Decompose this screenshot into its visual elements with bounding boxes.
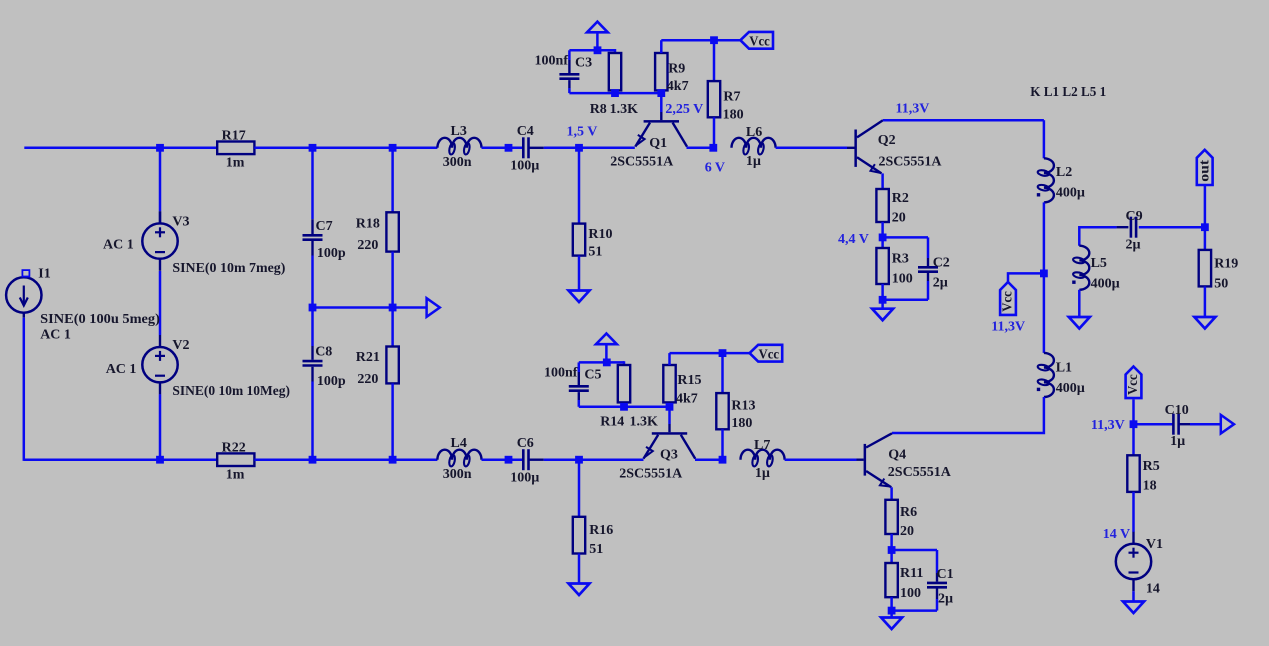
wire L2 top lead [1043,120,1046,158]
svg-text:C6: C6 [517,436,534,451]
resistor R7 [708,81,720,117]
svg-text:L1: L1 [1056,361,1072,376]
wire junction to Vcc flag bottom [723,352,750,355]
svg-text:2,25 V: 2,25 V [665,102,703,117]
voltage source V3 [142,211,177,270]
svg-text:4k7: 4k7 [667,79,689,94]
svg-text:14 V: 14 V [1103,527,1130,542]
node junction at R10 column [575,144,583,152]
wire R3 bottom lead [881,284,884,309]
node junction bottom rail at C6 [505,456,513,464]
svg-text:400µ: 400µ [1056,186,1085,201]
wire corner down to R8 [614,49,617,53]
node junction above C5 [603,359,611,367]
node junction bottom rail at V2 column [156,456,164,464]
wire C7 column upper lead [311,148,314,220]
voltage source V2 [142,335,177,394]
node junction R11 bottom [888,607,896,615]
ground below R16 [569,584,590,596]
svg-text:C5: C5 [584,368,601,383]
svg-text:L3: L3 [451,124,467,139]
svg-text:R13: R13 [731,399,755,414]
wire R11 bottom lead [890,597,893,617]
node junction at R9 bottom [657,89,665,97]
svg-text:400µ: 400µ [1056,381,1085,396]
capacitor C2 [918,267,938,271]
inductor L5 [1079,246,1089,290]
resistor R3 [876,248,888,284]
wire R13 bottom lead [721,429,724,459]
svg-text:Q4: Q4 [888,447,906,462]
svg-text:1m: 1m [226,467,245,482]
wire C9 to out node [1139,226,1205,229]
ground below R19 [1194,317,1215,329]
svg-text:R9: R9 [668,62,685,77]
transistor Q1 base bar [644,120,679,123]
resistor R21 [386,347,398,384]
capacitor C1 [927,583,947,587]
svg-text:100: 100 [892,272,913,287]
ground below L5 [1069,317,1090,329]
resistor R11 [885,563,897,597]
resistor R6 [885,500,897,534]
svg-text:SINE(0 10m 7meg): SINE(0 10m 7meg) [172,261,285,276]
wire R21 to bottom rail [391,383,394,459]
svg-text:C2: C2 [933,255,950,270]
svg-text:2SC5551A: 2SC5551A [619,466,683,481]
resistor R5 [1127,455,1139,492]
node junction at R13 top [719,349,727,357]
svg-text:4,4 V: 4,4 V [838,232,869,247]
svg-text:4k7: 4k7 [676,391,698,406]
svg-text:2SC5551A: 2SC5551A [610,154,674,169]
wire R13 top lead [721,353,724,393]
wire R10 bottom lead [578,256,581,291]
output port arrow middle rail [427,298,440,317]
wire C7 to middle node [311,241,313,256]
svg-text:I1: I1 [38,267,50,282]
wire Q1 collector to 6V node [687,147,714,150]
svg-text:1m: 1m [226,156,245,171]
resistor R16 [573,517,585,554]
svg-text:51: 51 [589,542,603,557]
svg-text:out: out [1197,159,1212,181]
wire junction to Vcc flag [714,39,740,42]
transistor Q2 emitter [857,157,882,173]
capacitor C7 [303,235,323,239]
wire C8 to bottom rail [311,367,313,382]
net flag Vcc supply [1126,367,1142,399]
node junction middle rail at C8 column [309,304,317,312]
node junction R2/R3 [879,234,887,242]
svg-text:AC 1: AC 1 [40,327,71,342]
svg-text:R17: R17 [222,129,246,144]
resistor R2 [876,189,888,222]
wire bottom rail after R22 [254,458,437,461]
node junction bottom rail at C8 column [309,456,317,464]
node junction at R15 bottom [666,403,674,411]
svg-text:220: 220 [357,372,378,387]
wire V1 bottom lead [1132,591,1135,601]
svg-text:1.3K: 1.3K [610,102,639,117]
svg-text:R18: R18 [356,216,380,231]
wire C6 to Q3 emitter node [544,458,644,461]
node junction top rail at V3 column [156,144,164,152]
wire R15 to Vcc junction bottom [670,352,723,355]
ground below R11 [881,618,902,630]
capacitor C6 [523,449,528,470]
wire C2 bottom branch [927,273,929,281]
svg-text:51: 51 [588,244,602,259]
wire R15 top lead [668,353,671,365]
svg-text:K L1 L2 L5 1: K L1 L2 L5 1 [1030,85,1106,100]
wire C10 to output port [1190,423,1221,426]
current source I1 [6,277,41,317]
svg-text:R16: R16 [589,523,613,538]
wire R19 bottom lead [1204,286,1207,317]
wire net flag stem [596,32,599,50]
ground below R10 [569,291,590,303]
wire V2 to bottom rail [159,394,162,459]
node junction top rail at C7 column [309,144,317,152]
svg-text:11,3V: 11,3V [896,101,930,116]
transistor Q2 collector [857,120,883,137]
svg-text:SINE(0 100u 5meg): SINE(0 100u 5meg) [40,312,160,327]
node junction above C3 [594,46,602,54]
wire Q3 base vertical [668,407,671,424]
wire Q3 collector to R13 node [695,458,723,461]
svg-text:C3: C3 [575,56,592,71]
wire between V3 and V2 [159,271,162,335]
svg-text:R11: R11 [900,566,923,581]
voltage source V1 [1116,532,1151,591]
svg-text:R19: R19 [1214,257,1238,272]
svg-text:1,5 V: 1,5 V [567,124,598,139]
output port arrow right [1221,415,1234,434]
wire R21 top lead [391,308,394,347]
capacitor C10 [1173,414,1178,435]
capacitor C3 [559,74,579,78]
inductor L7 [741,450,785,460]
node junction out node [1201,223,1209,231]
svg-text:R2: R2 [892,191,909,206]
wire V3 column upper [159,148,162,212]
inductor L2 [1044,158,1054,202]
node junction at R7 top [710,36,718,44]
wire R16 bottom lead [578,554,581,584]
svg-text:R15: R15 [677,373,701,388]
transistor Q2 base bar [854,130,857,167]
svg-text:Q1: Q1 [649,136,667,151]
svg-text:L7: L7 [754,438,770,453]
wire C5 left branch lower [578,392,580,400]
transistor Q3 base bar [652,432,687,435]
svg-text:1µ: 1µ [746,154,761,169]
transistor Q1 emitter [635,123,650,147]
wire bottom rail left segment [24,458,217,461]
svg-text:1µ: 1µ [1170,434,1185,449]
node junction Q3 collector node [719,456,727,464]
resistor R13 [716,393,728,429]
node junction R3 bottom [879,296,887,304]
wire corner down to R14 [623,361,626,365]
svg-text:C9: C9 [1126,209,1143,224]
svg-text:11,3V: 11,3V [991,320,1025,335]
svg-text:V3: V3 [172,214,189,229]
ground below R3 [872,309,893,321]
capacitor C4 [523,137,528,158]
svg-text:300n: 300n [443,155,472,170]
wire supply node to C10 [1134,423,1174,426]
wire C1 bottom branch [936,588,938,599]
net flag Vcc top [740,32,773,49]
svg-text:R3: R3 [892,252,909,267]
capacitor C5 [569,386,589,390]
svg-text:Vcc: Vcc [759,347,780,362]
svg-text:SINE(0 10m 10Meg): SINE(0 10m 10Meg) [172,384,290,399]
svg-text:180: 180 [731,416,752,431]
unconnected pin marker at I1 top [22,270,29,276]
svg-text:R21: R21 [356,350,380,365]
wire R5 to V1 [1132,492,1135,532]
resistor R14 [618,365,630,402]
svg-text:300n: 300n [443,467,472,482]
wire net flag stem bottom [605,344,608,362]
net flag Vcc bottom [750,345,783,362]
wire Vcc flag stem to supply node [1132,400,1135,425]
wire Q4 emitter to R6 [890,487,893,500]
resistor R22 [217,453,254,466]
wire Q2 emitter to R2 [881,173,884,189]
wire C3 bottom horizontal to Q1 base node [569,92,661,95]
wire R7 top lead [713,40,716,81]
svg-text:20: 20 [900,524,914,539]
wire L1 top lead [1043,273,1046,353]
svg-text:AC 1: AC 1 [106,362,137,377]
transistor Q4 collector [866,433,892,447]
node junction middle rail at R21 column [389,304,397,312]
wire C5 bottom horizontal to Q3 base node [579,406,671,409]
resistor R18 [386,212,398,251]
svg-text:2µ: 2µ [933,276,948,291]
wire C2 top branch [883,236,928,239]
wire C3 left branch upper [568,50,571,60]
wire Q2 collector rail to L2 [883,119,1044,122]
resistor R15 [663,365,675,402]
wire R19 top lead [1204,227,1207,250]
svg-text:C8: C8 [315,345,332,360]
svg-text:100µ: 100µ [510,158,539,173]
wire out flag stem [1204,185,1207,227]
wire R5 top lead [1132,424,1135,455]
svg-text:R14: R14 [600,415,624,430]
wire R16 top lead [578,460,581,517]
inductor L3 [437,138,481,148]
wire L4 to C6 [482,458,524,461]
transistor Q4 emitter [866,471,891,487]
svg-text:C7: C7 [316,219,333,234]
svg-text:50: 50 [1214,277,1228,292]
svg-text:18: 18 [1143,479,1157,494]
resistor R8 [609,53,621,90]
svg-text:400µ: 400µ [1091,277,1120,292]
resistor R10 [573,224,585,256]
svg-text:C4: C4 [517,124,534,139]
net flag out [1197,150,1213,185]
transistor Q4 base bar [864,444,867,476]
svg-text:Vcc: Vcc [749,34,770,49]
wire L6 to Q2 base [776,147,847,150]
resistor R19 [1199,250,1211,287]
svg-text:R7: R7 [723,89,740,104]
wire R7 bottom lead [713,117,716,148]
wire L2 bottom to center tap [1043,202,1046,273]
resistor R9 [655,53,667,90]
node junction supply node [1130,420,1138,428]
svg-text:C10: C10 [1165,403,1189,418]
svg-text:100µ: 100µ [510,470,539,485]
node junction 6V node [709,144,717,152]
resistor R17 [217,142,254,155]
wire L1 bottom to Q4 collector rail [892,397,1044,433]
wire L7 to Q4 base [785,458,857,461]
wire L5 bottom lead [1078,290,1081,317]
svg-text:R22: R22 [222,441,246,456]
svg-text:100nf: 100nf [535,54,569,69]
wire Q1 base vertical [660,93,663,112]
ground below V1 [1123,602,1144,614]
svg-text:2µ: 2µ [1126,238,1141,253]
transistor Q3 emitter [644,435,659,459]
svg-text:V2: V2 [172,338,189,353]
inductor L1 [1044,353,1054,397]
svg-text:L4: L4 [451,436,467,451]
wire middle node to C8 [311,308,314,347]
svg-text:2SC5551A: 2SC5551A [879,154,943,169]
svg-text:14: 14 [1146,582,1160,597]
svg-text:R10: R10 [588,227,612,242]
svg-text:L6: L6 [746,125,762,140]
svg-text:20: 20 [892,211,906,226]
wire C5 top horizontal [579,361,624,364]
svg-text:100p: 100p [317,374,346,389]
node junction at R16 column [575,456,583,464]
node junction R6/R11 [888,546,896,554]
svg-text:Vcc: Vcc [1001,291,1016,312]
svg-text:Vcc: Vcc [1126,374,1141,395]
svg-text:R8: R8 [590,102,607,117]
svg-text:C1: C1 [937,567,954,582]
node junction at R8 bottom [611,89,619,97]
capacitor C8 [303,361,323,365]
svg-text:1µ: 1µ [755,466,770,481]
svg-text:180: 180 [723,108,744,123]
wire top rail left segment [24,147,217,150]
wire C9 row from L5 corner [1079,227,1116,246]
svg-text:2SC5551A: 2SC5551A [888,465,952,480]
svg-text:2µ: 2µ [938,592,953,607]
svg-text:220: 220 [357,238,378,253]
net flag arrow above C3 block [587,22,608,33]
transistor Q3 collector [681,435,695,459]
wire R9 top lead [660,40,663,53]
wire C3 left branch lower [568,80,570,88]
wire middle rail horizontal [313,306,393,309]
svg-text:6 V: 6 V [705,160,725,175]
wire R18 top lead [391,148,394,213]
node junction center tap Vcc [1040,270,1048,278]
wire C5 left branch upper [578,362,581,372]
wire C3 top horizontal [569,49,615,52]
wire R2 to R3 node [881,222,884,248]
wire R9 to Vcc junction [661,39,714,42]
inductor L4 [437,450,481,460]
svg-text:V1: V1 [1146,537,1163,552]
capacitor C9 [1117,226,1129,228]
node junction left of C4 [505,144,513,152]
wire R10 top lead [578,148,581,224]
wire Vcc flag to center tap [1008,273,1040,282]
wire I1 down to bottom rail [23,318,26,461]
svg-text:1.3K: 1.3K [630,415,659,430]
node junction top rail at R18 column [389,144,397,152]
net flag arrow above C5 block [596,334,617,345]
wire top rail after R17 [254,147,437,150]
wire L3 to C4 [482,147,524,150]
node junction bottom rail at R21 column [389,456,397,464]
svg-text:L2: L2 [1056,165,1072,180]
svg-text:100: 100 [900,586,921,601]
wire C1 top branch [892,549,937,552]
svg-text:100nf: 100nf [544,366,578,381]
wire C4 to Q1 emitter node [544,147,635,150]
svg-text:R6: R6 [900,505,917,520]
node junction at R14 bottom [620,403,628,411]
wire middle rail to output port [393,306,427,309]
transistor Q1 collector [673,123,687,147]
inductor L6 [732,138,776,148]
svg-text:R5: R5 [1143,459,1160,474]
svg-text:Q3: Q3 [660,448,678,463]
net flag Vcc center tap [1000,282,1016,315]
svg-text:11,3V: 11,3V [1091,418,1125,433]
svg-text:AC 1: AC 1 [103,238,134,253]
wire R6 to R11 node [890,534,893,563]
wire R18 to middle rail [391,252,394,308]
svg-text:100p: 100p [317,246,346,261]
svg-text:Q2: Q2 [878,133,896,148]
svg-text:L5: L5 [1091,256,1107,271]
